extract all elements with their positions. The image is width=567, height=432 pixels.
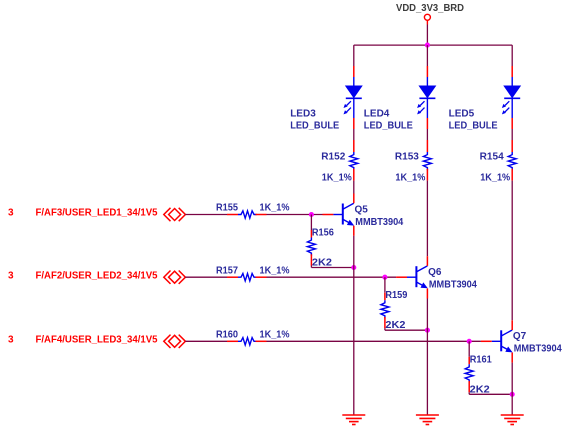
wire F/AF3/USER_LED1_34/1V5 to R155: [185, 214, 227, 216]
label R154 1K_1%: [480, 152, 511, 184]
R161 pin 2: [468, 381, 470, 392]
transistor Q7 MMBT3904: [492, 330, 513, 352]
node emitter junction Q6: [425, 328, 430, 333]
R152 pin 2: [353, 169, 355, 181]
label R152 1K_1%: [321, 152, 352, 184]
resistor R152: [350, 152, 358, 170]
node base junction Q5: [309, 212, 314, 217]
R152 pin 1: [353, 140, 355, 152]
transistor Q5 MMBT3904: [333, 203, 354, 225]
wire R154 to Q7 collector: [511, 181, 513, 321]
label R157 1K_1%: [216, 265, 290, 276]
R160 pin 2: [256, 340, 267, 342]
Q6 base pin: [396, 276, 407, 278]
net name F/AF3/USER_LED1_34/1V5: [36, 208, 158, 219]
svg-text:R154: R154: [480, 152, 504, 163]
R161 pin 1: [468, 357, 470, 365]
ground GND1: [342, 415, 365, 425]
R155 pin 1: [227, 214, 238, 216]
R157 pin 2: [256, 276, 267, 278]
svg-text:MMBT3904: MMBT3904: [355, 217, 403, 228]
svg-text:MMBT3904: MMBT3904: [514, 344, 562, 355]
transistor Q6 MMBT3904: [407, 266, 428, 288]
LED3 pin 1 (anode): [353, 66, 355, 77]
wire Q7 emitter to ground: [511, 363, 513, 415]
svg-text:R161: R161: [470, 354, 492, 365]
off-page connector F/AF2/USER_LED2_34/1V5: [164, 271, 186, 284]
wire LED4 to R153: [426, 129, 428, 140]
ground GND3: [501, 415, 524, 425]
ground GND2: [416, 415, 439, 425]
wire Q6 emitter to ground: [426, 299, 428, 416]
svg-text:Q5: Q5: [355, 204, 369, 215]
wire base node to R159: [384, 277, 386, 293]
R156 pin 1: [310, 230, 312, 238]
svg-text:1K_1%: 1K_1%: [480, 173, 510, 184]
wire base node to R161: [468, 341, 470, 357]
net name F/AF4/USER_LED3_34/1V5: [36, 335, 158, 346]
R153 pin 1: [426, 140, 428, 152]
resistor R156: [307, 238, 315, 256]
svg-text:LED3: LED3: [290, 109, 316, 120]
wire rail to LED5 anode: [511, 45, 513, 66]
R153 pin 2: [426, 169, 428, 181]
label R155 1K_1%: [216, 203, 290, 214]
wire VDD rail: [354, 44, 512, 46]
pin number 3 (sheet ref) line 3: [8, 335, 14, 346]
wire R155 to Q5 base node: [267, 214, 323, 216]
wire R159 to emitter net: [385, 328, 428, 330]
svg-text:LED4: LED4: [364, 109, 390, 120]
wire rail to LED4 anode: [426, 45, 428, 66]
label R156 2K2: [312, 228, 334, 269]
svg-text:R156: R156: [312, 228, 334, 239]
wire F/AF2/USER_LED2_34/1V5 to R157: [185, 276, 227, 278]
label LED5 / LED_BULE: [449, 109, 498, 132]
LED4 pin 2 (cathode): [426, 118, 428, 129]
R155 pin 2: [256, 214, 267, 216]
resistor R155: [238, 211, 257, 218]
Q6 collector pin: [426, 256, 428, 266]
node base junction Q6: [382, 275, 387, 280]
node emitter junction Q7: [510, 392, 515, 397]
svg-text:R159: R159: [385, 290, 407, 301]
svg-text:VDD_3V3_BRD: VDD_3V3_BRD: [396, 3, 464, 14]
svg-text:1K_1%: 1K_1%: [260, 203, 290, 214]
off-page connector F/AF4/USER_LED3_34/1V5: [164, 335, 186, 348]
R159 pin 2: [384, 317, 386, 328]
wire R160 to Q7 base node: [267, 340, 481, 342]
wire R161 to emitter net: [469, 392, 512, 394]
Q5 base pin: [323, 214, 334, 216]
label Q6 MMBT3904: [428, 267, 477, 291]
label Q5 MMBT3904: [355, 204, 404, 228]
Q7 base pin: [481, 340, 492, 342]
svg-text:LED_BULE: LED_BULE: [449, 121, 498, 132]
resistor R160: [238, 338, 257, 345]
svg-text:R153: R153: [395, 152, 419, 163]
wire F/AF4/USER_LED3_34/1V5 to R160: [185, 340, 227, 342]
LED3 pin 2 (cathode): [353, 118, 355, 129]
node junction rail-center: [425, 43, 430, 48]
svg-text:R152: R152: [321, 152, 345, 163]
node emitter junction Q5: [351, 265, 356, 270]
svg-text:1K_1%: 1K_1%: [260, 330, 290, 341]
LED5 pin 2 (cathode): [511, 118, 513, 129]
svg-text:1K_1%: 1K_1%: [260, 265, 290, 276]
svg-text:1K_1%: 1K_1%: [322, 173, 352, 184]
svg-text:R160: R160: [216, 330, 238, 341]
svg-text:Q6: Q6: [428, 267, 442, 278]
svg-text:LED5: LED5: [449, 109, 475, 120]
label R161 2K2: [470, 354, 492, 395]
label R159 2K2: [385, 290, 407, 331]
Q5 collector pin: [353, 194, 355, 204]
node base junction Q7: [467, 339, 472, 344]
label Q7 MMBT3904: [513, 331, 562, 355]
pin number 3 (sheet ref) line 1: [8, 208, 14, 219]
svg-text:F/AF4/USER_LED3_34/1V5: F/AF4/USER_LED3_34/1V5: [36, 335, 158, 346]
resistor R153: [423, 152, 431, 170]
R157 pin 1: [227, 276, 238, 278]
Q5 emitter pin: [353, 226, 355, 236]
wire R156 to emitter net: [311, 266, 353, 268]
off-page connector F/AF3/USER_LED1_34/1V5: [164, 208, 186, 221]
R160 pin 1: [227, 340, 238, 342]
svg-text:3: 3: [8, 335, 14, 346]
wire base node to R156: [310, 215, 312, 231]
wire R153 to Q6 collector: [426, 181, 428, 257]
LED LED5: [502, 77, 520, 118]
svg-text:LED_BULE: LED_BULE: [364, 121, 413, 132]
svg-text:Q7: Q7: [513, 331, 527, 342]
pin number 3 (sheet ref) line 2: [8, 270, 14, 281]
R159 pin 1: [384, 293, 386, 301]
label LED4 / LED_BULE: [364, 109, 413, 132]
label R153 1K_1%: [395, 152, 426, 184]
svg-text:LED_BULE: LED_BULE: [290, 121, 339, 132]
label R160 1K_1%: [216, 330, 290, 341]
Q7 emitter pin: [511, 353, 513, 363]
resistor R157: [238, 274, 257, 281]
label LED3 / LED_BULE: [290, 109, 339, 132]
LED4 pin 1 (anode): [426, 66, 428, 77]
Q6 emitter pin: [426, 288, 428, 298]
svg-text:3: 3: [8, 270, 14, 281]
resistor R161: [465, 364, 473, 382]
wire Q5 emitter to ground: [353, 236, 355, 415]
wire power stub to rail: [426, 25, 428, 46]
wire R157 to Q6 base node: [267, 276, 397, 278]
svg-text:1K_1%: 1K_1%: [395, 173, 425, 184]
R156 pin 2: [310, 254, 312, 265]
R154 pin 2: [511, 169, 513, 181]
resistor R159: [381, 300, 389, 318]
LED5 pin 1 (anode): [511, 66, 513, 77]
svg-text:R157: R157: [216, 265, 238, 276]
resistor R154: [508, 152, 516, 170]
R154 pin 1: [511, 140, 513, 152]
wire LED3 to R152: [353, 129, 355, 140]
svg-text:MMBT3904: MMBT3904: [429, 280, 477, 291]
svg-text:R155: R155: [216, 203, 238, 214]
wire rail to LED3 anode: [353, 45, 355, 66]
power symbol VDD_3V3_BRD: [396, 3, 464, 24]
net name F/AF2/USER_LED2_34/1V5: [36, 270, 158, 281]
wire R152 to Q5 collector: [353, 181, 355, 194]
Q7 collector pin: [511, 320, 513, 330]
LED LED4: [417, 77, 435, 118]
svg-text:F/AF2/USER_LED2_34/1V5: F/AF2/USER_LED2_34/1V5: [36, 270, 158, 281]
LED LED3: [344, 77, 362, 118]
svg-text:3: 3: [8, 208, 14, 219]
svg-text:F/AF3/USER_LED1_34/1V5: F/AF3/USER_LED1_34/1V5: [36, 208, 158, 219]
wire LED5 to R154: [511, 129, 513, 140]
